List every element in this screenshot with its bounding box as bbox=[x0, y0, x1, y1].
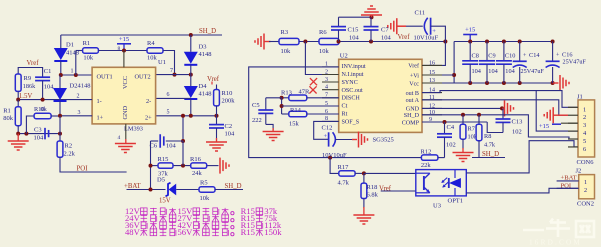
wire node pin1 U1 (OUT1) bbox=[61, 74, 92, 76]
capacitor C3 bbox=[44, 128, 46, 140]
svg-text:SOF_S: SOF_S bbox=[342, 120, 360, 126]
resistor R10 200k bbox=[216, 85, 218, 90]
resistor R4 bbox=[147, 48, 163, 53]
svg-text:R17: R17 bbox=[338, 164, 350, 171]
svg-text:out B: out B bbox=[406, 91, 419, 97]
ground (right end of caps rail, sideways) bbox=[553, 82, 559, 84]
svg-text:104: 104 bbox=[488, 68, 498, 75]
svg-text:4: 4 bbox=[118, 135, 121, 141]
capacitor C4 102 bbox=[444, 122, 446, 134]
svg-text:10k: 10k bbox=[281, 48, 292, 55]
resistor R16 24k bbox=[191, 163, 207, 168]
svg-text:15V: 15V bbox=[159, 198, 171, 205]
pin 2 stub (U2 left) bbox=[322, 74, 339, 76]
svg-text:4.7k: 4.7k bbox=[484, 142, 496, 149]
svg-text:4148: 4148 bbox=[199, 51, 212, 58]
svg-text:C12: C12 bbox=[322, 125, 333, 132]
svg-text:R18: R18 bbox=[367, 184, 378, 191]
pin 1 stub (J1) bbox=[568, 106, 578, 108]
wire opto to J2 pin2 (POI) bbox=[466, 188, 578, 193]
svg-text:10V10uF: 10V10uF bbox=[414, 35, 439, 42]
svg-text:R14: R14 bbox=[290, 107, 302, 114]
resistor R1 bbox=[75, 51, 77, 76]
pin 2 stub (J1) bbox=[568, 114, 578, 116]
svg-text:1+: 1+ bbox=[97, 114, 104, 121]
pin 15 stub (U2 right) bbox=[422, 74, 442, 76]
connector J1 CON6 body bbox=[578, 100, 595, 157]
wire R13/R14 left vertical bbox=[281, 98, 283, 114]
pin 7 stub (U2 left) bbox=[322, 97, 339, 99]
svg-text:C3: C3 bbox=[34, 127, 42, 134]
wire C11 to Vref pin16 bbox=[422, 26, 445, 65]
ground (left of R3, sideways) bbox=[263, 34, 265, 50]
svg-text:4: 4 bbox=[325, 85, 328, 91]
capacitor C12 10V10uF bbox=[314, 121, 339, 139]
wire +BAT to J2 pin1 bbox=[557, 180, 579, 182]
svg-text:C1: C1 bbox=[44, 68, 52, 75]
pin 5 stub (J1) bbox=[568, 138, 578, 140]
resistor R8 4.7k bbox=[478, 115, 480, 124]
svg-text:OUT2: OUT2 bbox=[135, 74, 151, 81]
svg-text:200k: 200k bbox=[222, 98, 236, 105]
no-connect X pin3 SYNC bbox=[310, 78, 317, 85]
svg-text:1: 1 bbox=[71, 69, 74, 75]
svg-text:C7: C7 bbox=[381, 27, 389, 34]
capacitor C5 222 bbox=[266, 97, 282, 99]
svg-text:102: 102 bbox=[512, 129, 522, 136]
svg-text:Vref: Vref bbox=[408, 63, 420, 70]
wire pin15 +Vi stub bbox=[422, 74, 454, 76]
wire N.I.input from R3/R6 junction bbox=[305, 42, 338, 75]
svg-text:R4: R4 bbox=[147, 40, 155, 47]
svg-text:POI: POI bbox=[77, 166, 89, 173]
svg-text:Vcc: Vcc bbox=[409, 81, 419, 87]
svg-text:80k: 80k bbox=[3, 115, 14, 122]
wire R4 to pin7 bbox=[163, 51, 175, 75]
svg-text:10k: 10k bbox=[147, 55, 158, 62]
capacitor C11 10V10uF bbox=[406, 25, 423, 27]
svg-text:2: 2 bbox=[77, 94, 80, 100]
svg-text:SH_D: SH_D bbox=[482, 151, 499, 158]
svg-text:104: 104 bbox=[505, 68, 515, 75]
svg-text:1-: 1- bbox=[97, 98, 102, 105]
svg-text:R5: R5 bbox=[200, 180, 208, 187]
svg-text:2: 2 bbox=[584, 187, 587, 194]
svg-text:DISCH: DISCH bbox=[342, 96, 361, 102]
svg-text:222: 222 bbox=[252, 117, 262, 124]
wire INV.input feedback (pin1) bbox=[249, 67, 422, 158]
svg-text:+15: +15 bbox=[119, 36, 129, 43]
wire R17 to opto bbox=[364, 172, 416, 174]
svg-text:GND: GND bbox=[406, 107, 420, 113]
ground (R18) bbox=[363, 207, 365, 215]
svg-text:Vref: Vref bbox=[207, 76, 220, 83]
svg-text:2-: 2- bbox=[146, 98, 151, 105]
svg-text:R15: R15 bbox=[241, 227, 255, 237]
svg-text:8: 8 bbox=[118, 46, 121, 52]
svg-text:R12: R12 bbox=[421, 149, 432, 156]
svg-text:6: 6 bbox=[583, 146, 586, 153]
svg-text:10k: 10k bbox=[200, 195, 211, 202]
svg-text:R15: R15 bbox=[158, 156, 169, 163]
pin 6 stub (J1) bbox=[568, 146, 578, 148]
wire POI bbox=[60, 157, 127, 172]
svg-text:COMP: COMP bbox=[402, 120, 420, 126]
ground (J1 pin2, sideways red) bbox=[553, 114, 568, 116]
pin 8 stub (U2 left) bbox=[322, 120, 339, 122]
svg-text:C16: C16 bbox=[562, 52, 573, 59]
svg-text:6: 6 bbox=[167, 92, 170, 98]
ground (U1 pin4) bbox=[125, 139, 127, 143]
pin 13 stub (U2 right) bbox=[422, 82, 442, 84]
svg-text:R7: R7 bbox=[468, 126, 475, 133]
svg-text:13: 13 bbox=[429, 78, 435, 84]
optocoupler U3 OPT1 body bbox=[416, 170, 467, 196]
capacitor C10 bbox=[503, 42, 505, 61]
ground (red bars left of C11) bbox=[396, 18, 398, 34]
svg-text:56V: 56V bbox=[178, 227, 194, 237]
svg-text:GND: GND bbox=[122, 105, 129, 119]
svg-text:OSC.out: OSC.out bbox=[342, 88, 363, 94]
svg-text:U3: U3 bbox=[433, 203, 441, 210]
svg-text:+Vi: +Vi bbox=[410, 73, 419, 79]
svg-text:R3: R3 bbox=[281, 29, 289, 36]
wire SH_D top rail bbox=[61, 34, 222, 36]
ground (R7) bbox=[462, 148, 464, 152]
wire pin6 U1 (2-) bbox=[156, 97, 191, 99]
svg-text:3: 3 bbox=[583, 122, 586, 129]
capacitor C15 bbox=[338, 17, 340, 26]
wire R3-R6 bbox=[299, 41, 319, 43]
svg-text:R8: R8 bbox=[484, 133, 491, 140]
svg-text:C5: C5 bbox=[252, 102, 260, 109]
svg-text:SG3525: SG3525 bbox=[373, 137, 394, 144]
pin 3 stub (J1) bbox=[568, 122, 578, 124]
svg-text:CON6: CON6 bbox=[577, 159, 595, 166]
svg-text:C2: C2 bbox=[225, 123, 233, 130]
svg-text:104: 104 bbox=[166, 143, 177, 150]
svg-text:R6: R6 bbox=[319, 29, 327, 36]
svg-text:+: + bbox=[324, 133, 328, 140]
connector J2 CON2 body bbox=[579, 175, 595, 199]
svg-text:OPT1: OPT1 bbox=[448, 198, 464, 205]
svg-text:D1: D1 bbox=[66, 42, 74, 49]
svg-text:104: 104 bbox=[225, 131, 236, 138]
svg-text:10k: 10k bbox=[83, 55, 94, 62]
wire C15-C7 top loop bbox=[339, 16, 372, 18]
svg-text:16RD.COM: 16RD.COM bbox=[529, 239, 582, 247]
ground (C2) bbox=[216, 138, 218, 142]
svg-text:C8: C8 bbox=[472, 53, 479, 60]
svg-text:24k: 24k bbox=[192, 170, 203, 177]
svg-text:104: 104 bbox=[472, 68, 482, 75]
pin 9 stub (U2 right) bbox=[422, 121, 442, 123]
wire GND pin4 stub bbox=[125, 124, 127, 139]
wire pin2 U1 (1-) / 1.5V node bbox=[18, 99, 92, 101]
wire POI to J2 pin2 bbox=[557, 187, 579, 189]
svg-text:48V: 48V bbox=[125, 227, 141, 237]
pin 3 stub (U2 left) bbox=[322, 81, 339, 83]
svg-text:C11: C11 bbox=[415, 10, 426, 17]
pin 4 stub (J1) bbox=[568, 130, 578, 132]
svg-text:R9: R9 bbox=[24, 75, 32, 82]
capacitor C16 25V47uF bbox=[552, 42, 554, 62]
svg-text:SYNC: SYNC bbox=[342, 80, 358, 86]
capacitor C1 bbox=[35, 76, 50, 78]
svg-text:1: 1 bbox=[583, 106, 586, 113]
wire VCC pin8 stub bbox=[123, 51, 125, 68]
svg-text:C10: C10 bbox=[505, 53, 516, 60]
resistor R13 47R bbox=[282, 97, 289, 99]
svg-text:0k: 0k bbox=[41, 106, 48, 113]
wire pin3 U1 (1+) bbox=[60, 115, 92, 117]
IC U1 LM393 body bbox=[92, 67, 156, 124]
svg-text:104: 104 bbox=[381, 35, 392, 42]
svg-text:10k: 10k bbox=[319, 48, 330, 55]
wire out B to J1 pin1 bbox=[422, 91, 578, 108]
svg-text:U1: U1 bbox=[158, 59, 166, 66]
wire +BAT row bbox=[127, 189, 166, 191]
resistor R2 2.2k bbox=[59, 134, 61, 141]
capacitor C2 bbox=[216, 116, 218, 125]
resistor R5 10k bbox=[199, 187, 215, 192]
wire out A to J1 pin2 bbox=[422, 100, 568, 115]
svg-text:Ct: Ct bbox=[342, 104, 348, 110]
svg-text:J1: J1 bbox=[577, 93, 583, 100]
svg-text:5: 5 bbox=[583, 138, 586, 145]
wire R6 to C15/C7/C11 rail bbox=[339, 41, 445, 43]
wire C6-left down bbox=[150, 141, 152, 190]
resistor R6 10k bbox=[319, 38, 339, 44]
svg-text:+15: +15 bbox=[539, 123, 549, 130]
svg-text:out A: out A bbox=[406, 98, 420, 104]
svg-text:R16: R16 bbox=[190, 156, 202, 163]
svg-text:C13: C13 bbox=[512, 119, 523, 126]
pin 5 stub (U2 left) bbox=[322, 105, 339, 107]
resistor R12 22k bbox=[421, 155, 438, 160]
svg-text:150k: 150k bbox=[264, 227, 282, 237]
wire pin5 U1 (2+) bbox=[156, 115, 217, 117]
svg-text:102: 102 bbox=[446, 142, 456, 149]
svg-text:N.I.input: N.I.input bbox=[342, 72, 364, 78]
opto LED bbox=[448, 178, 450, 188]
svg-text:SH_D: SH_D bbox=[199, 28, 216, 35]
wire COMP pin9 bbox=[422, 121, 487, 123]
svg-text:2: 2 bbox=[583, 114, 586, 121]
wire R5 to SH_D bbox=[215, 189, 243, 191]
ground (right of R16, sideways) bbox=[219, 158, 221, 174]
svg-text:VCC: VCC bbox=[122, 76, 129, 89]
wire bottom-left node bbox=[18, 133, 60, 135]
resistor R11 80k bbox=[17, 100, 19, 107]
capacitor C13 102 bbox=[502, 108, 504, 119]
svg-text:4148: 4148 bbox=[199, 91, 212, 98]
svg-text:R1: R1 bbox=[83, 40, 91, 47]
ground (U2 GND, sideways) bbox=[502, 107, 504, 109]
svg-text:5: 5 bbox=[167, 110, 170, 116]
wire opto to J1 pin6 bbox=[466, 141, 578, 173]
svg-text:186k: 186k bbox=[23, 83, 36, 90]
wire SH_D pin10 to J1 pin5 bbox=[422, 115, 578, 139]
wire +15 rail to +Vi/Vcc bbox=[453, 42, 455, 84]
svg-text:C4: C4 bbox=[447, 124, 455, 131]
pin 12 stub (U2 right) bbox=[422, 107, 442, 109]
wire pin13 Vcc row / caps bottom rail bbox=[422, 82, 553, 84]
svg-text:22k: 22k bbox=[421, 162, 432, 169]
capacitor C9 bbox=[486, 42, 488, 61]
svg-text:104: 104 bbox=[44, 84, 55, 91]
diode D4 bbox=[190, 75, 192, 86]
svg-text:D3: D3 bbox=[199, 44, 207, 51]
svg-text:J2: J2 bbox=[576, 168, 582, 175]
pin 1 stub (U2 left) bbox=[322, 66, 339, 68]
svg-text:47R: 47R bbox=[299, 89, 311, 96]
svg-text:SH_D: SH_D bbox=[225, 183, 242, 190]
svg-text:25V47uF: 25V47uF bbox=[563, 59, 587, 66]
svg-text:3: 3 bbox=[325, 77, 328, 83]
ground (C12, sideways) bbox=[352, 139, 357, 141]
resistor R3 10k bbox=[269, 41, 279, 43]
svg-text:OUT1: OUT1 bbox=[97, 74, 113, 81]
svg-text:15k: 15k bbox=[289, 121, 300, 128]
svg-text:INV.input: INV.input bbox=[342, 64, 366, 70]
wire D2 node down to R2 bbox=[59, 116, 61, 134]
opto phototransistor bbox=[424, 173, 430, 178]
svg-text:D24148: D24148 bbox=[70, 83, 91, 90]
resistor R14 15k bbox=[282, 113, 289, 115]
svg-text:104: 104 bbox=[349, 35, 360, 42]
svg-text:CON2: CON2 bbox=[577, 201, 594, 208]
pin 14 stub (U2 right) bbox=[422, 92, 442, 94]
svg-text:R13: R13 bbox=[281, 90, 292, 97]
no-connect X pin4 OSC.out bbox=[309, 86, 316, 93]
svg-text:D5: D5 bbox=[157, 177, 165, 184]
capacitor C14 25V47uF bbox=[519, 42, 521, 62]
diode D3 bbox=[190, 35, 192, 52]
resistor R7 10k bbox=[462, 115, 464, 124]
wire +15 top rail bbox=[454, 41, 552, 43]
wire Vref to opto bbox=[381, 190, 416, 192]
svg-text:2: 2 bbox=[325, 69, 328, 75]
svg-text:2.2k: 2.2k bbox=[64, 151, 76, 158]
wire Vref node bbox=[18, 68, 42, 78]
wire pin7 U1 (OUT2) bbox=[156, 74, 191, 76]
svg-text:Vref: Vref bbox=[398, 34, 411, 41]
pin 11 stub (U2 right) bbox=[422, 99, 442, 101]
opto light arrows bbox=[442, 178, 447, 183]
pin 16 stub (U2 right) bbox=[422, 64, 442, 66]
svg-text:4.7k: 4.7k bbox=[338, 180, 350, 187]
pin 6 stub (U2 left) bbox=[322, 113, 339, 115]
resistor R10b 10k (horizontal) bbox=[26, 116, 34, 134]
svg-text:C9: C9 bbox=[488, 53, 495, 60]
svg-text:R10: R10 bbox=[222, 90, 233, 97]
zener diode D5 bbox=[169, 184, 177, 196]
ground (top, pointing up) bbox=[371, 16, 373, 18]
pin 4 stub (U2 left) bbox=[322, 89, 339, 91]
svg-text:C14: C14 bbox=[529, 52, 540, 59]
wire R15/R16 row bbox=[151, 165, 159, 167]
svg-text:R2: R2 bbox=[65, 143, 73, 150]
svg-text:R1: R1 bbox=[3, 108, 11, 115]
svg-text:3: 3 bbox=[78, 110, 81, 116]
svg-text:1.5V: 1.5V bbox=[19, 93, 32, 100]
svg-text:25V47uF: 25V47uF bbox=[521, 68, 545, 75]
svg-text:LM393: LM393 bbox=[124, 126, 143, 133]
wire SH_D stub (R8) bbox=[472, 157, 505, 159]
diode D2 bbox=[59, 75, 61, 88]
svg-text:104: 104 bbox=[34, 135, 45, 142]
svg-text:Vref: Vref bbox=[27, 60, 40, 67]
svg-text:7: 7 bbox=[170, 68, 173, 74]
resistor R15 37k bbox=[158, 163, 173, 168]
resistor R17 4.7k bbox=[330, 158, 339, 174]
wire to J1 pin4 bbox=[536, 91, 578, 132]
svg-text:Rt: Rt bbox=[342, 112, 348, 118]
diode D1 bbox=[60, 35, 62, 48]
wire pin5 Ct bbox=[282, 105, 339, 107]
junction top rail / D3 bbox=[189, 33, 193, 37]
capacitor C8 bbox=[469, 42, 471, 61]
svg-text:6.8k: 6.8k bbox=[367, 192, 379, 199]
svg-text:SH_D: SH_D bbox=[404, 113, 420, 119]
svg-text:D4: D4 bbox=[199, 83, 208, 90]
pin 10 stub (U2 right) bbox=[422, 114, 442, 116]
svg-text:+15: +15 bbox=[465, 27, 475, 34]
resistor R18 6.8k bbox=[363, 173, 365, 183]
capacitor C6 bbox=[182, 116, 184, 141]
IC U2 SG3525 body bbox=[339, 59, 422, 132]
ground (left) bbox=[17, 134, 19, 141]
svg-text:15: 15 bbox=[429, 70, 435, 76]
svg-text:2+: 2+ bbox=[145, 114, 152, 121]
resistor R9 186k bbox=[15, 74, 21, 91]
watermark bbox=[523, 219, 594, 238]
wire pin12 GND of U2 bbox=[422, 107, 502, 109]
svg-text:U2: U2 bbox=[340, 53, 348, 60]
svg-text:16: 16 bbox=[429, 60, 435, 66]
svg-text:1: 1 bbox=[584, 179, 587, 186]
svg-text:C15: C15 bbox=[348, 27, 359, 34]
ground (C5) bbox=[272, 128, 274, 131]
svg-text:10V10uF: 10V10uF bbox=[322, 152, 347, 159]
capacitor C7 bbox=[370, 17, 372, 26]
